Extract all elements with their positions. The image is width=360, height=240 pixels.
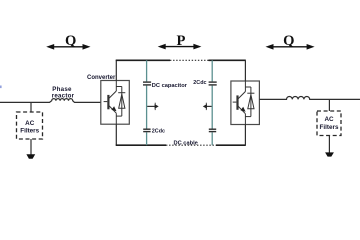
wire: filter to ground (right) — [328, 136, 330, 153]
svg-text:AC: AC — [324, 116, 334, 123]
node: cropped text artifact at left edge — [0, 86, 2, 89]
svg-text:Q: Q — [65, 33, 76, 49]
node: AC filter tap (left) — [30, 102, 32, 112]
ground (left) — [26, 154, 35, 158]
wire: U2 bottom to DC bus — [244, 125, 246, 146]
wire: U2 top to DC bus — [244, 60, 246, 81]
svg-text:reactor: reactor — [52, 92, 75, 99]
arrow: right capacitor reference — [207, 105, 212, 107]
svg-text:2Cdc: 2Cdc — [193, 80, 206, 86]
wire: left AC line with phase reactor L1 — [0, 99, 101, 103]
emitter arrowhead Q2 — [241, 107, 246, 112]
emitter arrowhead Q1 — [111, 106, 116, 111]
svg-text:DC cable: DC cable — [174, 141, 198, 147]
svg-text:Converter: Converter — [87, 75, 116, 81]
arrow: active power P — [160, 46, 199, 48]
wire: filter to ground (left) — [30, 139, 32, 155]
svg-text:Filters: Filters — [20, 128, 39, 135]
wire: top DC bus (solid-dotted-solid) — [116, 59, 170, 61]
AC filter block F2 (dashed box) — [317, 111, 341, 136]
wire: bottom DC bus with DC cable dotted section — [116, 144, 166, 146]
AC filter block F1 (dashed box) — [17, 112, 43, 139]
transistor Q1: IGBT with antiparallel diode inside U1 — [104, 81, 126, 125]
capacitor C1 leg (left, teal) — [146, 60, 148, 145]
transistor Q2: IGBT with antiparallel diode inside U2 — [233, 81, 255, 125]
arrow: reactive power Q (left) — [49, 46, 89, 48]
svg-text:2Cdc: 2Cdc — [152, 128, 165, 134]
converter U1 (left VSC) box — [101, 81, 130, 125]
capacitor C2 plates (bottom left) 2Cdc — [143, 129, 150, 131]
svg-text:Q: Q — [283, 33, 294, 49]
arrow: left capacitor reference — [147, 105, 155, 107]
svg-text:Filters: Filters — [320, 124, 339, 131]
svg-text:AC: AC — [25, 120, 35, 127]
ground (right) — [325, 152, 334, 156]
node: AC filter tap (right) — [328, 99, 330, 111]
wire: U1 top to DC bus — [115, 60, 117, 80]
wire: right AC line with phase reactor L2 — [259, 97, 360, 100]
capacitor C1 plates (top) — [143, 82, 151, 85]
wire: U1 bottom to DC bus — [115, 124, 117, 145]
arrow: reactive power Q (right) — [268, 46, 313, 48]
capacitor C3 leg (right, teal) — [211, 60, 213, 145]
converter U2 (right VSC) box — [231, 81, 260, 125]
capacitor C4 plates (bottom right) — [209, 129, 216, 131]
capacitor C3 plates (top right) 2Cdc — [209, 82, 217, 85]
svg-text:DC capacitor: DC capacitor — [152, 83, 188, 89]
svg-text:P: P — [176, 33, 185, 49]
